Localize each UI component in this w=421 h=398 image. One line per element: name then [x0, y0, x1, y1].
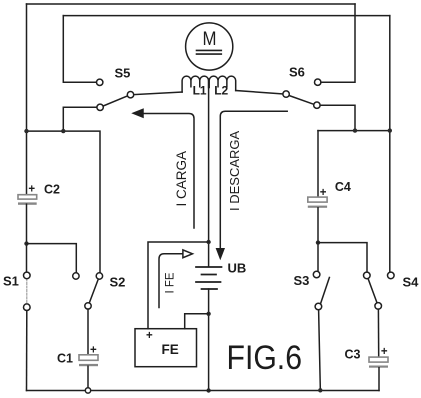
svg-text:C2: C2	[44, 183, 60, 197]
node: bottom rail C1 junction (open)	[85, 388, 90, 393]
svg-text:+: +	[146, 330, 153, 342]
wire: branch to S2 left contact	[27, 244, 77, 273]
wire: battery negative down	[208, 289, 210, 391]
switch S1	[24, 272, 31, 310]
svg-text:M: M	[203, 29, 217, 50]
wire: S5 lower contact branch	[63, 107, 97, 131]
current indicator I FE	[159, 250, 193, 308]
svg-text:FIG.6: FIG.6	[227, 339, 303, 377]
node: inner drop junction y=131	[61, 129, 65, 133]
wire: S2 common to C1	[87, 309, 89, 355]
wire: center tap from coils to battery	[208, 79, 210, 267]
node: left rail junction y=131	[24, 129, 28, 133]
svg-text:FE: FE	[162, 342, 179, 357]
svg-text:L2: L2	[214, 84, 228, 98]
wire: branch to middle switch contact	[318, 243, 367, 272]
svg-text:C1: C1	[57, 352, 73, 366]
inductor L1	[182, 76, 208, 92]
wire: right horizontal bus y=130.6	[318, 130, 390, 132]
wire: S6 lower contact branch	[320, 105, 355, 130]
wire: right bus down to C4	[317, 131, 319, 198]
wire: S3 lower contact to bottom rail	[319, 310, 321, 388]
wire: C3 bottom to bottom rail end	[378, 368, 380, 391]
current indicator I CARGA	[133, 109, 194, 228]
svg-text:S6: S6	[289, 65, 305, 80]
current indicator I DESCARGA	[217, 111, 288, 258]
node: bottom rail center junction	[206, 388, 210, 392]
wire: left horizontal bus y=131	[27, 131, 101, 273]
wire: inner top rail	[63, 15, 390, 17]
wire: S6 upper contact to outer rail	[321, 4, 355, 82]
battery UB	[196, 267, 222, 289]
svg-text:+: +	[320, 187, 327, 199]
wire: C1 to bottom rail	[87, 366, 89, 387]
capacitor C1	[79, 355, 98, 366]
svg-text:UB: UB	[228, 261, 247, 276]
node: C4 bottom junction	[316, 240, 320, 244]
capacitor C4	[308, 197, 327, 208]
wire: left rail middle segment	[26, 204, 28, 272]
switch S6	[283, 79, 321, 108]
svg-text:S1: S1	[3, 274, 19, 289]
wire: left rail lower segment	[26, 311, 28, 391]
inductor L2	[209, 76, 235, 90]
node: right bus junction x=390	[388, 128, 392, 132]
node: left rail junction y=243.6	[24, 241, 28, 245]
svg-text:S3: S3	[294, 273, 310, 288]
wire: bottom rail	[27, 390, 380, 392]
svg-text:C3: C3	[345, 348, 361, 362]
wire: charge branch to FE left lead	[148, 242, 209, 329]
switch S5	[97, 79, 134, 110]
wire: middle switch to C3	[377, 309, 379, 357]
svg-text:+: +	[28, 184, 35, 196]
wire: battery bottom to FE right lead	[185, 314, 209, 329]
wire: outer top rail	[27, 3, 356, 5]
svg-text:I CARGA: I CARGA	[174, 151, 189, 207]
svg-text:I FE: I FE	[164, 272, 176, 293]
svg-text:S2: S2	[110, 275, 126, 290]
svg-text:L1: L1	[193, 84, 207, 98]
svg-text:+: +	[90, 345, 97, 357]
node: right bus junction x=355	[353, 128, 357, 132]
svg-text:S4: S4	[403, 275, 420, 290]
svg-text:+: +	[381, 346, 388, 358]
wire: right inner rail drop to S4	[389, 16, 391, 272]
motor U M	[186, 23, 233, 70]
svg-text:I DESCARGA: I DESCARGA	[227, 130, 242, 211]
wire: inner rail drop to S5 upper contact	[63, 16, 96, 83]
svg-text:C4: C4	[335, 180, 351, 194]
node: bottom rail S3 junction	[318, 388, 322, 392]
wire: left rail upper segment	[26, 4, 28, 195]
svg-text:S5: S5	[115, 66, 131, 81]
switch S2	[73, 273, 103, 309]
fuel cell FE	[135, 329, 197, 367]
wire: C4 bottom to S3 junction	[317, 208, 319, 271]
wire: S5 pivot to L1	[134, 92, 182, 95]
switch S4 contact	[388, 272, 395, 279]
capacitor C2	[18, 195, 37, 205]
wire: L2 to S6 pivot	[236, 91, 283, 95]
switch S4 blade pair	[364, 272, 382, 309]
node: battery bottom junction	[206, 312, 210, 316]
switch S3	[313, 271, 329, 310]
capacitor C3	[369, 357, 388, 368]
node: battery top junction	[206, 240, 210, 244]
